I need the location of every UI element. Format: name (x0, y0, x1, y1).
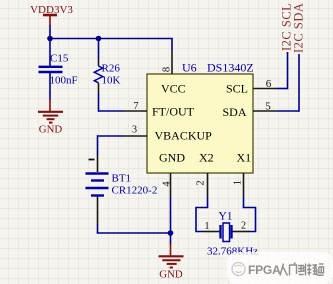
svg-text:U6: U6 (182, 61, 197, 75)
svg-text:FPGA: FPGA (248, 263, 281, 277)
svg-text:VDD3V3: VDD3V3 (30, 4, 73, 16)
svg-text:GND: GND (39, 124, 63, 136)
svg-text:Y1: Y1 (219, 211, 233, 223)
svg-text:X1: X1 (237, 151, 252, 165)
svg-text:1: 1 (232, 180, 243, 185)
svg-text:VCC: VCC (161, 82, 186, 96)
svg-text:GND: GND (159, 151, 185, 165)
svg-text:2: 2 (195, 180, 206, 185)
svg-text:VBACKUP: VBACKUP (155, 129, 213, 143)
svg-text:10K: 10K (102, 75, 121, 87)
svg-text:100nF: 100nF (50, 75, 78, 87)
svg-text:2: 2 (241, 221, 246, 232)
svg-text:8: 8 (161, 67, 172, 72)
svg-text:SCL: SCL (226, 82, 248, 96)
svg-text:BT1: BT1 (112, 173, 132, 185)
svg-text:CR1220-2: CR1220-2 (112, 185, 158, 197)
svg-text:1: 1 (205, 221, 210, 232)
svg-text:FT/OUT: FT/OUT (152, 105, 195, 119)
svg-text:R26: R26 (102, 63, 121, 75)
svg-text:C15: C15 (50, 53, 69, 65)
svg-text:3: 3 (132, 125, 137, 136)
svg-text:I2C SDA: I2C SDA (292, 3, 306, 53)
svg-text:DS1340Z: DS1340Z (207, 61, 254, 75)
svg-text:SDA: SDA (222, 105, 246, 119)
svg-text:GND: GND (159, 269, 183, 281)
svg-text:X2: X2 (199, 151, 214, 165)
